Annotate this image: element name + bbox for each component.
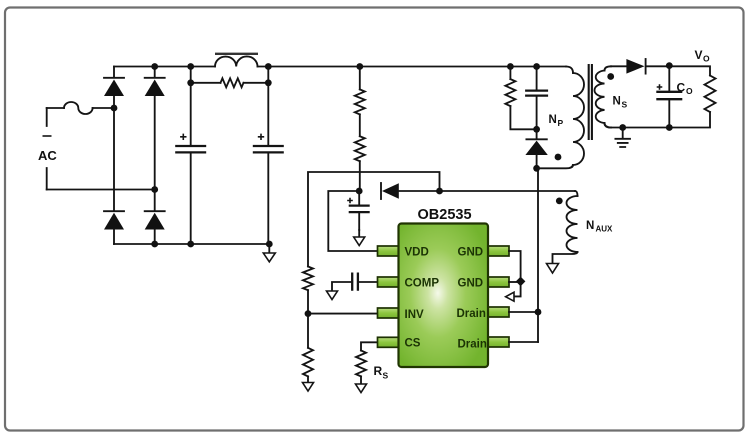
winding NS secondary: [605, 66, 612, 70]
svg-text:V: V: [695, 48, 703, 62]
ground RS: [356, 384, 367, 393]
svg-text:INV: INV: [405, 309, 425, 321]
resistor R7 (load): [705, 76, 716, 113]
wire GND2: [509, 281, 521, 283]
wire bottom rail: [114, 243, 269, 245]
capacitor C4 (COMP): [332, 282, 379, 291]
svg-text:GND: GND: [458, 247, 484, 259]
ground VDD cap: [358, 230, 360, 237]
capacitor C5 (clamp): [536, 67, 538, 130]
node bottom rail gnd: [266, 241, 273, 248]
node top rail C2: [265, 63, 272, 70]
diode D4: [145, 210, 165, 212]
node NS phase dot: [607, 73, 614, 80]
node Vo: [666, 62, 673, 69]
node sec gnd: [619, 124, 626, 131]
diode D6 (clamp): [536, 129, 538, 139]
ground COMP: [327, 291, 338, 300]
node bottom rail D4: [151, 241, 158, 248]
wire INV: [308, 313, 379, 315]
wire Drain1: [509, 311, 538, 313]
node Co bottom: [666, 124, 673, 131]
capacitor C2: [267, 67, 269, 245]
svg-text:O: O: [703, 54, 710, 64]
resistor R1 (parallel damping): [191, 82, 269, 84]
wire secondary bottom: [605, 123, 612, 128]
wire bridge column 2: [154, 67, 156, 245]
svg-text:VDD: VDD: [405, 247, 429, 259]
wire AC top with fuse: [47, 107, 114, 109]
svg-text:AC: AC: [38, 148, 57, 163]
node AC-bottom junction: [151, 186, 158, 193]
AC source: [46, 108, 48, 190]
node aux tap: [436, 188, 443, 195]
ground NAUX: [547, 264, 559, 274]
diode D1: [104, 77, 124, 79]
node snubber C top: [533, 63, 540, 70]
resistor R3 (startup lower): [359, 114, 361, 136]
diode D7 (output): [626, 59, 644, 74]
capacitor C1: [190, 67, 192, 245]
svg-text:GND: GND: [458, 278, 484, 290]
node R1 right: [265, 79, 272, 86]
wire AC bottom: [47, 189, 155, 191]
ground signal (left arrow): [506, 292, 514, 301]
wire GND1: [509, 251, 521, 296]
fuse F1: [64, 102, 93, 114]
resistor R2 (startup upper): [359, 67, 361, 90]
wire D5 anode to aux: [399, 190, 575, 192]
wire secondary top: [611, 66, 710, 75]
svg-text:AUX: AUX: [596, 225, 614, 234]
node NAUX phase dot: [556, 198, 563, 205]
resistor R5 (divider lower): [307, 314, 309, 348]
winding NAUX: [575, 191, 578, 196]
wire drain bus: [537, 168, 539, 342]
node NP phase dot: [555, 154, 562, 161]
node AC-top junction: [111, 105, 118, 112]
svg-text:N: N: [613, 96, 621, 108]
svg-text:O: O: [686, 86, 693, 96]
node startup top: [356, 63, 363, 70]
node GND diamond: [516, 277, 526, 287]
svg-text:N: N: [586, 220, 594, 232]
node R1 left: [187, 79, 194, 86]
svg-text:S: S: [622, 100, 628, 110]
winding NP primary: [566, 67, 573, 74]
wire INV divider top: [308, 172, 440, 267]
node INV: [305, 310, 312, 317]
wire bridge column 1: [113, 67, 115, 245]
svg-text:Drain: Drain: [457, 308, 486, 320]
resistor R4 (divider upper): [303, 267, 313, 291]
inductor L1: [215, 56, 258, 66]
node VDD: [356, 188, 363, 195]
svg-text:S: S: [383, 371, 389, 381]
svg-text:C: C: [677, 81, 686, 95]
node snubber bottom: [533, 126, 540, 133]
node bottom rail C1: [187, 241, 194, 248]
capacitor C3 (VDD): [358, 191, 360, 230]
transformer core: [589, 64, 592, 140]
node primary bottom: [533, 165, 540, 172]
wire Drain2: [509, 341, 538, 343]
node top rail C1: [187, 63, 194, 70]
op-amp U1 OB2535 body: [378, 207, 510, 367]
ground earth secondary: [622, 128, 624, 139]
diode D5 (VDD rectifier): [380, 183, 382, 199]
node snubber R top: [507, 63, 514, 70]
svg-text:CS: CS: [405, 338, 421, 350]
capacitor C6 Co: [668, 66, 670, 128]
node top rail D2: [151, 63, 158, 70]
svg-text:COMP: COMP: [405, 278, 440, 290]
wire VDD loop to pin: [328, 191, 378, 251]
resistor RS: [356, 351, 366, 377]
ground bottom rail: [268, 244, 270, 253]
svg-text:Drain: Drain: [458, 339, 487, 351]
diode D2: [145, 77, 165, 79]
svg-text:P: P: [558, 118, 564, 128]
wire CS: [361, 342, 379, 350]
wire top rail: [114, 66, 566, 68]
ground divider: [307, 376, 309, 382]
svg-text:OB2535: OB2535: [418, 207, 472, 223]
resistor R6 (clamp): [509, 67, 511, 80]
svg-text:N: N: [549, 114, 557, 126]
diode D3: [104, 210, 124, 212]
node drain: [535, 309, 542, 316]
wire startup to VDD node: [359, 161, 361, 191]
svg-text:R: R: [374, 364, 383, 378]
